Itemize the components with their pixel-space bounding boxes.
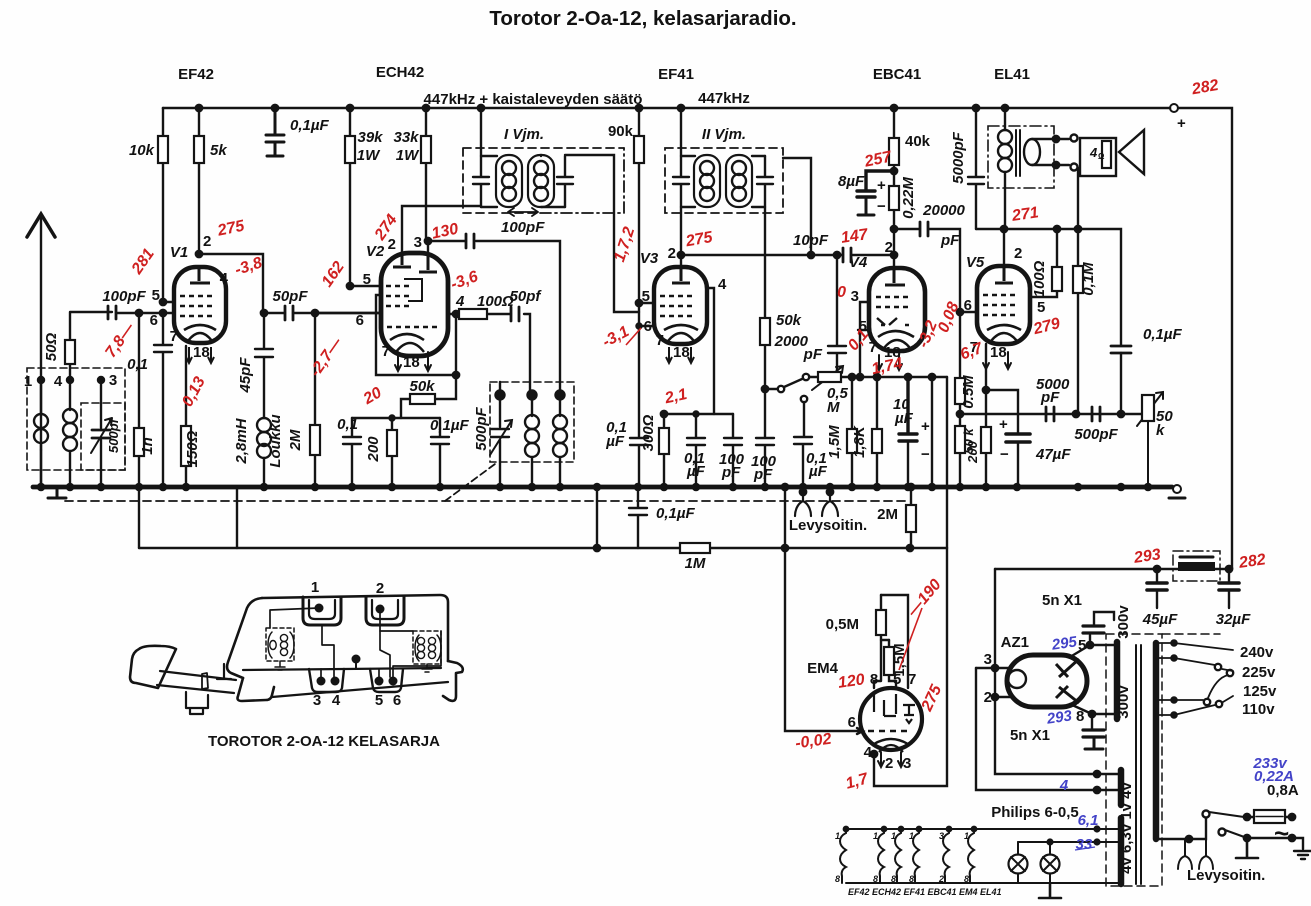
node 1 xyxy=(38,377,44,383)
arrows EM4 bottom xyxy=(878,752,904,767)
ground chassis terminal xyxy=(1173,485,1181,493)
socket cutout 1 xyxy=(303,597,341,625)
svg-text:5: 5 xyxy=(893,671,901,688)
svg-text:Ω: Ω xyxy=(1098,152,1105,161)
svg-text:+: + xyxy=(921,418,930,435)
resistor R 100ohm xyxy=(1030,229,1057,297)
svg-text:Levysoitin.: Levysoitin. xyxy=(1187,867,1265,884)
capacitor C ift2 left xyxy=(678,105,684,111)
tube V4 EBC41 xyxy=(869,268,925,351)
svg-text:pF: pF xyxy=(721,464,741,481)
wire AZ1 left vertical xyxy=(995,569,1118,774)
capacitor C 8uF electrolytic xyxy=(857,171,894,191)
svg-text:pF: pF xyxy=(1040,389,1060,406)
svg-text:4: 4 xyxy=(718,276,727,293)
diode load chain: resistor R 50k xyxy=(756,213,774,487)
node 6 xyxy=(556,391,565,400)
wire heater top rail xyxy=(846,828,1118,830)
wire ground bus xyxy=(33,485,1172,490)
coil box right dashed xyxy=(413,631,441,664)
svg-text:3: 3 xyxy=(939,831,944,841)
plug levysoitin left xyxy=(800,489,806,495)
svg-text:50Ω: 50Ω xyxy=(43,333,60,362)
svg-text:90k: 90k xyxy=(608,123,634,140)
svg-text:50k: 50k xyxy=(409,378,435,395)
resistor R 1n xyxy=(138,313,140,487)
plug fork levysoitin psu left xyxy=(1178,839,1192,869)
arrows V2 cathode 18 xyxy=(395,352,431,371)
svg-text:4: 4 xyxy=(455,293,465,310)
svg-text:5: 5 xyxy=(1037,299,1045,316)
coil osc 1 xyxy=(531,395,533,487)
svg-text:1n: 1n xyxy=(139,437,156,455)
svg-text:−: − xyxy=(877,198,886,215)
resistor R 2M xyxy=(314,313,316,487)
svg-text:18: 18 xyxy=(193,344,210,361)
resistor R 40k xyxy=(891,105,897,111)
svg-text:5: 5 xyxy=(642,288,650,305)
svg-text:500pF: 500pF xyxy=(473,406,490,450)
resistor R 0,5M xyxy=(874,595,881,688)
svg-text:4: 4 xyxy=(54,373,63,390)
transformer core xyxy=(1136,645,1141,884)
capacitor C 0,1uF return xyxy=(629,487,647,548)
plug fork levysoitin psu right xyxy=(1199,839,1213,869)
svg-text:+: + xyxy=(999,416,1008,433)
wire tone row y414 xyxy=(960,413,1142,415)
resistor R 1,8K xyxy=(874,374,880,380)
wire AZ1 pin3 xyxy=(976,667,1010,669)
wire V3 grid xyxy=(597,254,654,256)
resistor 50ohm xyxy=(65,340,75,364)
switch pickup/radio xyxy=(765,388,777,390)
ground mains xyxy=(1292,838,1311,859)
node 3 xyxy=(98,377,104,383)
svg-text:Levysoitin.: Levysoitin. xyxy=(789,517,867,534)
tube V5 EL41 xyxy=(977,266,1030,344)
svg-text:I Vjm.: I Vjm. xyxy=(504,126,544,143)
tube EM4 xyxy=(860,688,922,752)
transformer HV winding xyxy=(1114,642,1121,719)
svg-text:0,1: 0,1 xyxy=(127,356,148,373)
svg-text:µF: µF xyxy=(894,410,914,427)
dashed box osc coils xyxy=(490,382,574,462)
wire V2 cathode loop xyxy=(376,295,456,375)
plug levysoitin right xyxy=(827,489,833,495)
capacitor C 500pF variable osc xyxy=(491,395,509,487)
svg-text:3: 3 xyxy=(313,692,321,709)
ground T xyxy=(1236,838,1258,858)
resistor R 5k xyxy=(198,108,200,254)
wire to caps xyxy=(352,417,440,419)
svg-text:Loukku: Loukku xyxy=(267,414,284,467)
transformer primary winding xyxy=(1153,643,1160,839)
potentiometer 0,5M xyxy=(809,376,947,378)
tube V1 EF42 xyxy=(174,267,226,363)
svg-text:µF: µF xyxy=(686,463,706,480)
coil ift1 secondary xyxy=(528,155,554,207)
svg-text:447kHz + kaistaleveyden säätö: 447kHz + kaistaleveyden säätö xyxy=(424,91,643,108)
svg-text:18: 18 xyxy=(673,344,690,361)
IF transformer 1 dashed box xyxy=(463,148,624,213)
arrows V4 cathode xyxy=(876,355,902,370)
ground bus junction dots xyxy=(38,484,1151,490)
svg-text:2: 2 xyxy=(203,233,211,250)
wire V3 pin4 screen xyxy=(707,288,714,414)
svg-text:EBC41: EBC41 xyxy=(873,66,921,83)
capacitor C 50pF coupling xyxy=(264,312,381,314)
wire V4 plate xyxy=(893,229,895,268)
pilot lamp 1 xyxy=(1009,855,1028,874)
wire B+ top bus xyxy=(163,107,1170,110)
svg-text:300v: 300v xyxy=(1115,605,1132,639)
svg-text:6: 6 xyxy=(393,692,401,709)
svg-text:110v: 110v xyxy=(1242,701,1275,718)
svg-text:2M: 2M xyxy=(877,506,898,523)
svg-text:0: 0 xyxy=(837,284,846,301)
wire V4 grid xyxy=(857,374,863,380)
svg-text:5000pF: 5000pF xyxy=(950,131,967,184)
capacitor C 5n X1 bottom xyxy=(1083,730,1104,737)
coil osc 2 xyxy=(559,395,561,487)
svg-text:0,22A: 0,22A xyxy=(1254,768,1294,785)
svg-text:2: 2 xyxy=(938,874,944,884)
svg-text:1: 1 xyxy=(24,373,32,390)
coil L 2,8mH Loukku xyxy=(257,418,271,432)
svg-text:EF42 ECH42 EF41 EBC41 EM4 EL41: EF42 ECH42 EF41 EBC41 EM4 EL41 xyxy=(848,887,1002,897)
node B+ terminal 282 xyxy=(1170,104,1178,112)
svg-text:4: 4 xyxy=(220,270,229,287)
resistor R 0,1M xyxy=(1077,229,1079,414)
svg-text:0,1µF: 0,1µF xyxy=(430,417,469,434)
resistor R 1,5M xyxy=(849,374,855,380)
capacitor C 5000pF xyxy=(973,105,979,111)
capacitor C ift1 right xyxy=(557,156,573,207)
svg-text:1M: 1M xyxy=(685,555,706,572)
svg-text:0,5M: 0,5M xyxy=(826,616,859,633)
wire V4 pin5 xyxy=(858,329,869,331)
chassis bottom tab xyxy=(186,692,208,714)
coil ift1 primary xyxy=(481,156,497,207)
svg-text:225v: 225v xyxy=(1242,664,1276,681)
coil L2 xyxy=(69,380,71,487)
svg-text:4: 4 xyxy=(1089,145,1098,160)
svg-text:47µF: 47µF xyxy=(1035,446,1071,463)
capacitor C ift1 left xyxy=(478,105,484,111)
wire chassis dashed line xyxy=(65,500,905,502)
transformer filament winding 6,3v 4v xyxy=(1118,818,1125,884)
svg-text:5n X1: 5n X1 xyxy=(1010,727,1050,744)
svg-text:2: 2 xyxy=(885,239,893,256)
svg-text:6,1: 6,1 xyxy=(1078,812,1099,829)
wire antenna coil box top xyxy=(70,312,112,380)
svg-text:ECH42: ECH42 xyxy=(376,64,424,81)
svg-text:1: 1 xyxy=(964,831,969,841)
coil L1 antenna xyxy=(40,380,42,487)
svg-text:3: 3 xyxy=(109,372,117,389)
svg-text:µF: µF xyxy=(605,433,625,450)
capacitor C 45uF xyxy=(1156,569,1158,582)
filter choke xyxy=(1173,551,1220,581)
svg-text:447kHz: 447kHz xyxy=(698,90,750,107)
svg-text:10pF: 10pF xyxy=(793,232,829,249)
svg-text:V2: V2 xyxy=(366,243,385,260)
svg-text:3: 3 xyxy=(414,234,422,251)
svg-text:6: 6 xyxy=(356,312,364,329)
svg-text:300Ω: 300Ω xyxy=(640,414,657,451)
svg-text:0,1µF: 0,1µF xyxy=(1143,326,1182,343)
tuning arrow xyxy=(508,208,538,216)
svg-text:7: 7 xyxy=(656,332,664,349)
wire screen row y229 xyxy=(976,229,1121,345)
IF transformer 2 dashed box xyxy=(665,148,783,213)
wire ift1 to 90k xyxy=(565,155,639,312)
resistor R 0,22M xyxy=(893,210,895,229)
capacitor C 500pF xyxy=(1092,407,1100,421)
wire gang link dashed xyxy=(445,464,495,501)
svg-text:1: 1 xyxy=(311,579,319,596)
apron screw T xyxy=(217,664,231,679)
svg-text:1: 1 xyxy=(873,831,878,841)
svg-text:V1: V1 xyxy=(170,244,188,261)
resistor R 200 xyxy=(391,418,393,487)
svg-text:0,22M: 0,22M xyxy=(900,177,917,219)
svg-text:1W: 1W xyxy=(357,147,381,164)
svg-text:33k: 33k xyxy=(393,129,419,146)
svg-text:2: 2 xyxy=(376,580,384,597)
dashed box antenna coils xyxy=(27,368,125,470)
svg-text:V3: V3 xyxy=(640,250,659,267)
pilot lamp 2 xyxy=(1041,855,1060,874)
resistor R 2M pickup xyxy=(910,487,912,548)
svg-text:5: 5 xyxy=(363,271,371,288)
ground symbol left xyxy=(48,487,66,498)
wire V3 plate row xyxy=(678,252,684,258)
heater EBC41 xyxy=(913,829,919,883)
wire V2 pin4 output xyxy=(448,314,530,395)
wire lower return bus xyxy=(139,547,947,549)
svg-text:33: 33 xyxy=(1076,836,1093,853)
capacitor C 2000pF xyxy=(834,252,840,258)
center rivet xyxy=(352,655,361,664)
svg-text:8: 8 xyxy=(873,874,878,884)
svg-text:EF42: EF42 xyxy=(178,66,214,83)
resistor R 0.5M grid xyxy=(959,312,961,414)
svg-text:pF: pF xyxy=(940,232,960,249)
svg-text:8: 8 xyxy=(909,874,914,884)
wire V2 pin2 to IFT1 bottom xyxy=(402,206,481,253)
svg-text:0,1µF: 0,1µF xyxy=(290,117,329,134)
node 5 xyxy=(496,391,505,400)
resistor R 39k 1W xyxy=(349,108,351,286)
svg-text:0,1µF: 0,1µF xyxy=(656,505,695,522)
svg-text:40k: 40k xyxy=(905,133,931,150)
svg-text:M: M xyxy=(827,399,840,416)
svg-text:2: 2 xyxy=(388,236,396,253)
svg-text:1: 1 xyxy=(909,831,914,841)
capacitor C 0,1uF pickup xyxy=(794,402,812,487)
svg-text:4: 4 xyxy=(1059,777,1069,794)
heater ECH42 xyxy=(878,829,884,883)
svg-text:8: 8 xyxy=(891,874,896,884)
capacitor C 50pf xyxy=(511,307,519,321)
svg-text:Torotor 2-Oa-12, kelasarjaradi: Torotor 2-Oa-12, kelasarjaradio. xyxy=(489,7,796,30)
chassis internal wires xyxy=(270,608,319,628)
svg-text:500pF: 500pF xyxy=(1074,426,1118,443)
coil ift2 secondary xyxy=(726,155,752,207)
svg-text:6: 6 xyxy=(964,297,972,314)
transformer dashed box xyxy=(1106,634,1162,886)
capacitor C 100pF xyxy=(724,414,742,487)
svg-text:−: − xyxy=(1000,446,1009,463)
svg-text:V5: V5 xyxy=(966,254,985,271)
svg-text:125v: 125v xyxy=(1243,683,1277,700)
svg-text:6: 6 xyxy=(150,312,158,329)
coil ift2 primary xyxy=(681,156,695,207)
resistor R 150ohm cathode xyxy=(185,346,187,487)
wire pilot lamp rail xyxy=(1018,841,1118,843)
voltage selector taps xyxy=(1156,643,1233,715)
resistor R 1,5M xyxy=(889,640,896,688)
resistor R 90k xyxy=(638,108,640,437)
resistor R 300ohm xyxy=(663,414,665,487)
capacitor C 100pF antenna coupling xyxy=(108,306,116,319)
wire AZ1 pin5 xyxy=(1070,635,1090,657)
svg-text:18: 18 xyxy=(990,344,1007,361)
fuse 0,8A xyxy=(1247,816,1292,818)
wire V5 plate xyxy=(1003,229,1005,266)
svg-text:10k: 10k xyxy=(129,142,155,159)
svg-text:Philips 6-0,5: Philips 6-0,5 xyxy=(991,804,1079,821)
svg-text:100pF: 100pF xyxy=(102,288,146,305)
svg-text:150Ω: 150Ω xyxy=(184,430,201,467)
svg-text:1: 1 xyxy=(835,831,840,841)
capacitor C 0,1uF screen xyxy=(687,414,705,487)
arrows V5 cathode xyxy=(983,352,1011,369)
svg-text:1,5M: 1,5M xyxy=(826,425,843,459)
svg-text:200: 200 xyxy=(965,440,980,463)
wire V2 pin3 node xyxy=(425,238,431,244)
transformer filament winding 4v 1v xyxy=(1118,770,1125,805)
wire bus to return xyxy=(596,487,598,548)
svg-text:2: 2 xyxy=(1014,245,1022,262)
svg-text:2: 2 xyxy=(885,755,893,772)
svg-text:0,1: 0,1 xyxy=(337,416,358,433)
capacitor C 5n X1 top xyxy=(1083,626,1104,633)
svg-text:50pf: 50pf xyxy=(510,288,543,305)
ground pilot xyxy=(1039,883,1061,898)
svg-text:7: 7 xyxy=(382,343,390,360)
antenna xyxy=(40,214,42,487)
heater EF42 xyxy=(840,829,846,883)
svg-text:2: 2 xyxy=(668,245,676,262)
svg-text:39k: 39k xyxy=(357,129,383,146)
chassis deck outline xyxy=(262,595,448,661)
wire V1 plate to node xyxy=(199,254,263,313)
wire pickup line down xyxy=(785,487,863,734)
svg-text:EF41: EF41 xyxy=(658,66,694,83)
capacitor C 5000pF tone xyxy=(1046,407,1054,421)
svg-text:18: 18 xyxy=(403,354,420,371)
svg-text:50pF: 50pF xyxy=(272,288,308,305)
svg-text:~: ~ xyxy=(1274,818,1289,848)
svg-text:200: 200 xyxy=(365,436,382,463)
tube AZ1 xyxy=(1007,655,1087,707)
wire avc to EM4 xyxy=(929,374,935,380)
capacitor C ift2 right xyxy=(757,156,773,213)
wire heater bottom rail xyxy=(846,882,1118,884)
capacitor C 0,1uF decoupling xyxy=(272,105,278,111)
svg-text:1W: 1W xyxy=(396,147,420,164)
mains bottom wire xyxy=(1156,818,1206,839)
svg-text:8: 8 xyxy=(964,874,969,884)
wire V2 grid row xyxy=(315,312,381,314)
svg-text:5: 5 xyxy=(375,692,383,709)
svg-text:4: 4 xyxy=(332,692,341,709)
heater EF41 xyxy=(895,829,901,883)
resistor R 33k 1W xyxy=(425,108,427,241)
svg-text:+: + xyxy=(877,177,886,194)
svg-text:8: 8 xyxy=(835,874,840,884)
svg-text:0.5M: 0.5M xyxy=(960,375,977,409)
svg-text:45µF: 45µF xyxy=(1142,611,1178,628)
svg-text:50k: 50k xyxy=(776,312,802,329)
svg-text:EL41: EL41 xyxy=(994,66,1030,83)
svg-text:300v: 300v xyxy=(1115,685,1132,719)
svg-text:pF: pF xyxy=(803,346,823,363)
resistor R 50 k xyxy=(959,414,961,487)
wire ift2 to V4 xyxy=(783,158,811,255)
svg-text:100pF: 100pF xyxy=(501,219,545,236)
mains switch xyxy=(1219,829,1226,836)
svg-text:100Ω: 100Ω xyxy=(1031,260,1048,297)
svg-text:5k: 5k xyxy=(210,142,227,159)
capacitor C 20000pF xyxy=(894,229,960,312)
pin strip 5 6 xyxy=(370,669,403,692)
capacitor C 100pF osc feedback xyxy=(428,241,560,395)
svg-text:EM4: EM4 xyxy=(807,660,839,677)
svg-text:2M: 2M xyxy=(287,429,304,451)
coil box left dashed xyxy=(266,628,294,661)
svg-text:7: 7 xyxy=(869,339,877,356)
blue handwritten annotations xyxy=(1045,633,1294,853)
svg-text:3: 3 xyxy=(851,288,859,305)
dash-dot box output transformer xyxy=(988,126,1054,188)
svg-text:6: 6 xyxy=(644,318,652,335)
svg-text:4v 6,3v 1v 4v: 4v 6,3v 1v 4v xyxy=(1118,781,1135,873)
svg-text:500pf: 500pf xyxy=(106,417,121,453)
svg-text:3: 3 xyxy=(984,651,992,668)
svg-text:TOROTOR 2-OA-12 KELASARJA: TOROTOR 2-OA-12 KELASARJA xyxy=(208,733,440,750)
svg-text:45pF: 45pF xyxy=(237,357,254,394)
capacitor C 0,1 xyxy=(343,418,361,487)
capacitor C 47uF electrolytic xyxy=(986,390,1018,433)
tube V2 ECH42 xyxy=(381,253,448,356)
svg-text:8: 8 xyxy=(870,671,878,688)
svg-text:II Vjm.: II Vjm. xyxy=(702,126,746,143)
svg-text:µF: µF xyxy=(808,463,828,480)
node 2 xyxy=(528,391,537,400)
svg-text:6: 6 xyxy=(848,714,856,731)
capacitor C 45pF trap xyxy=(255,313,273,418)
speaker xyxy=(1080,138,1116,176)
wire screen rail xyxy=(664,413,733,415)
svg-text:5: 5 xyxy=(152,287,160,304)
potentiometer 50k xyxy=(1137,392,1163,487)
svg-text:+: + xyxy=(1177,115,1186,132)
heater EL41 xyxy=(968,829,974,883)
svg-text:240v: 240v xyxy=(1240,644,1274,661)
